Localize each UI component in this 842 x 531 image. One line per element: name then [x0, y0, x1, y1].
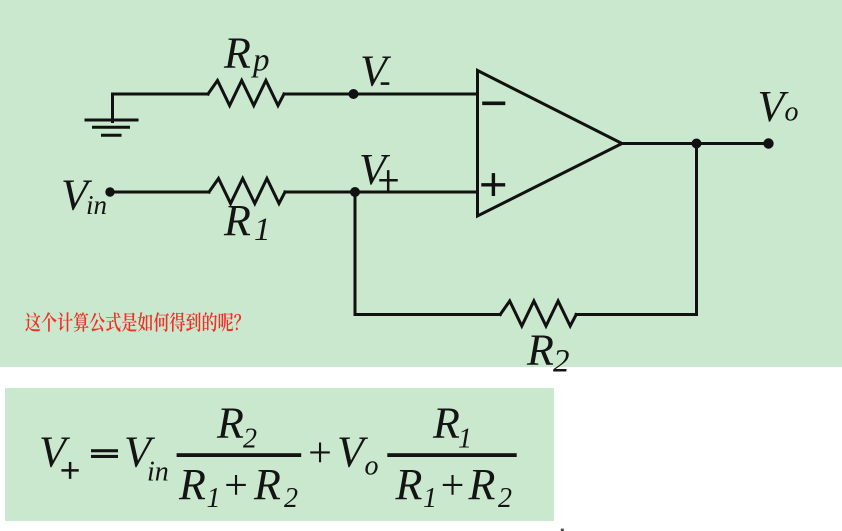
label V+: [359, 145, 397, 194]
svg-text:R: R: [526, 326, 554, 375]
wire ground to Rp: [113, 93, 209, 96]
formula numerator R1: [432, 399, 472, 455]
fraction bar 1: [177, 453, 302, 457]
svg-text:in: in: [86, 190, 107, 220]
formula Vo: [337, 428, 379, 482]
formula numerator R2: [216, 399, 257, 455]
node output junction: [692, 139, 702, 149]
wire feedback bottom right segment: [576, 313, 696, 316]
svg-text:o: o: [365, 451, 379, 482]
background green panel: [0, 0, 842, 367]
resistor R1: [209, 179, 285, 204]
label R2: [526, 326, 570, 380]
svg-text:1: 1: [423, 483, 437, 514]
fraction bar 2: [387, 453, 516, 457]
svg-text:2: 2: [553, 344, 570, 380]
formula denominator 2 R1 + R2: [395, 460, 513, 514]
svg-text:1: 1: [254, 212, 271, 248]
svg-text:R: R: [216, 399, 244, 448]
wire output junction down to feedback: [695, 144, 698, 315]
svg-text:R: R: [253, 460, 281, 509]
svg-text:2: 2: [243, 424, 257, 455]
op-amp non-inverting input marker: [483, 175, 504, 195]
svg-text:R: R: [223, 29, 251, 78]
label Vo: [758, 82, 799, 131]
label R1: [223, 196, 271, 248]
terminal Vin: [105, 187, 114, 196]
label V-: [360, 47, 392, 96]
wire feedback bottom left segment: [355, 313, 500, 316]
resistor R2: [500, 301, 576, 326]
op-amp U1: [478, 71, 623, 217]
formula panel: [5, 388, 554, 521]
label Rp: [223, 29, 270, 79]
ground: [86, 94, 137, 135]
svg-text:2: 2: [498, 483, 512, 514]
svg-text:R: R: [468, 460, 496, 509]
svg-text:R: R: [178, 460, 206, 509]
svg-text:R: R: [395, 460, 423, 509]
stray mark: [561, 529, 564, 531]
formula V+: [39, 428, 78, 478]
svg-text:1: 1: [207, 483, 221, 514]
node V-: [349, 89, 359, 99]
wire R1 to op-amp non-inverting input: [285, 191, 478, 194]
svg-text:p: p: [251, 43, 270, 79]
svg-text:in: in: [147, 457, 169, 488]
wire V+ node down to feedback: [354, 192, 357, 315]
svg-text:+: +: [306, 431, 334, 477]
svg-text:+: +: [438, 463, 466, 509]
svg-text:V: V: [360, 47, 392, 96]
svg-text:1: 1: [458, 424, 472, 455]
terminal Vo: [763, 138, 773, 148]
formula denominator R1 + R2: [178, 460, 298, 514]
wire Vin to R1: [110, 191, 209, 194]
formula equals sign: [91, 449, 118, 458]
svg-text:2: 2: [284, 483, 298, 514]
label Vin: [61, 170, 107, 220]
resistor Rp: [208, 81, 284, 106]
wire op-amp output to Vo: [622, 142, 769, 145]
annotation red chinese text: [25, 312, 241, 332]
svg-text:+: +: [222, 463, 250, 509]
op-amp inverting input marker: [484, 102, 504, 106]
node V+: [350, 187, 360, 197]
svg-text:R: R: [223, 196, 251, 245]
wire Rp to op-amp inverting input: [284, 93, 478, 96]
formula Vin: [124, 428, 169, 488]
svg-text:o: o: [785, 97, 799, 128]
svg-text:R: R: [432, 399, 460, 448]
svg-text:V: V: [359, 145, 391, 194]
